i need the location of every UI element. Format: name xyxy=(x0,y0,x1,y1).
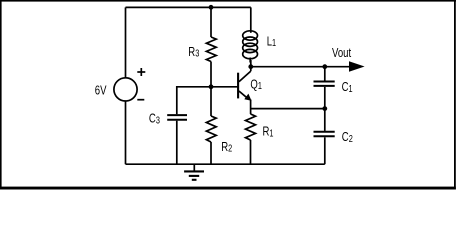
plus sign xyxy=(137,68,145,76)
wire R2 top lead xyxy=(210,87,212,116)
wire R2 bottom lead xyxy=(210,142,212,164)
wire C3 top lead xyxy=(176,86,178,114)
wire collector line to output xyxy=(251,66,350,68)
minus sign xyxy=(137,99,144,101)
wire C1 top lead xyxy=(324,67,326,81)
node C1 top junction xyxy=(322,64,327,69)
resistor R3 xyxy=(206,37,216,62)
wire L1 top lead xyxy=(250,7,252,32)
node base junction xyxy=(209,84,214,89)
capacitor C2 xyxy=(314,132,335,137)
wire C1 bottom lead xyxy=(324,87,326,109)
node emitter-line/C1/C2 junction xyxy=(322,106,327,111)
capacitor C3 xyxy=(167,115,187,120)
svg-text:Vout: Vout xyxy=(332,47,352,61)
resistor R2 xyxy=(206,116,216,142)
wire left riser top (source + terminal to top rail) xyxy=(125,7,127,78)
border frame xyxy=(0,0,456,190)
wire L1 bottom lead xyxy=(249,58,251,63)
wire left riser bottom (source - terminal to bottom rail) xyxy=(125,101,127,164)
wire top rail xyxy=(126,6,251,8)
svg-text:6V: 6V xyxy=(95,84,107,98)
Vout arrow xyxy=(349,61,365,72)
svg-text:R1: R1 xyxy=(263,125,274,139)
voltage source V1 6V xyxy=(114,78,137,101)
inductor L1 xyxy=(243,31,258,59)
transistor Q1 xyxy=(238,67,251,101)
wire C2 top lead xyxy=(324,109,326,131)
wire R3 top lead xyxy=(210,7,212,37)
svg-text:C1: C1 xyxy=(342,81,353,95)
wire base line (C3 corner to Q1 base) xyxy=(177,86,238,88)
capacitor C1 xyxy=(314,82,335,86)
wire emitter line xyxy=(251,108,325,110)
ground xyxy=(184,164,204,180)
svg-text:C2: C2 xyxy=(342,131,353,145)
svg-text:R3: R3 xyxy=(188,46,199,60)
resistor R1 xyxy=(246,114,256,140)
svg-text:L1: L1 xyxy=(267,35,276,49)
wire R3 bottom lead xyxy=(210,62,212,87)
svg-text:R2: R2 xyxy=(221,140,232,154)
svg-text:Q1: Q1 xyxy=(250,78,262,92)
wire emitter riser / R1 top lead xyxy=(250,100,252,115)
svg-text:C3: C3 xyxy=(149,112,160,126)
node top-rail/R3 junction xyxy=(209,5,214,10)
wire C3 bottom lead xyxy=(176,121,178,165)
node collector junction xyxy=(248,64,253,69)
wire R1 bottom lead xyxy=(250,140,252,164)
wire bottom rail xyxy=(126,163,325,165)
wire C2 bottom lead xyxy=(324,137,326,164)
